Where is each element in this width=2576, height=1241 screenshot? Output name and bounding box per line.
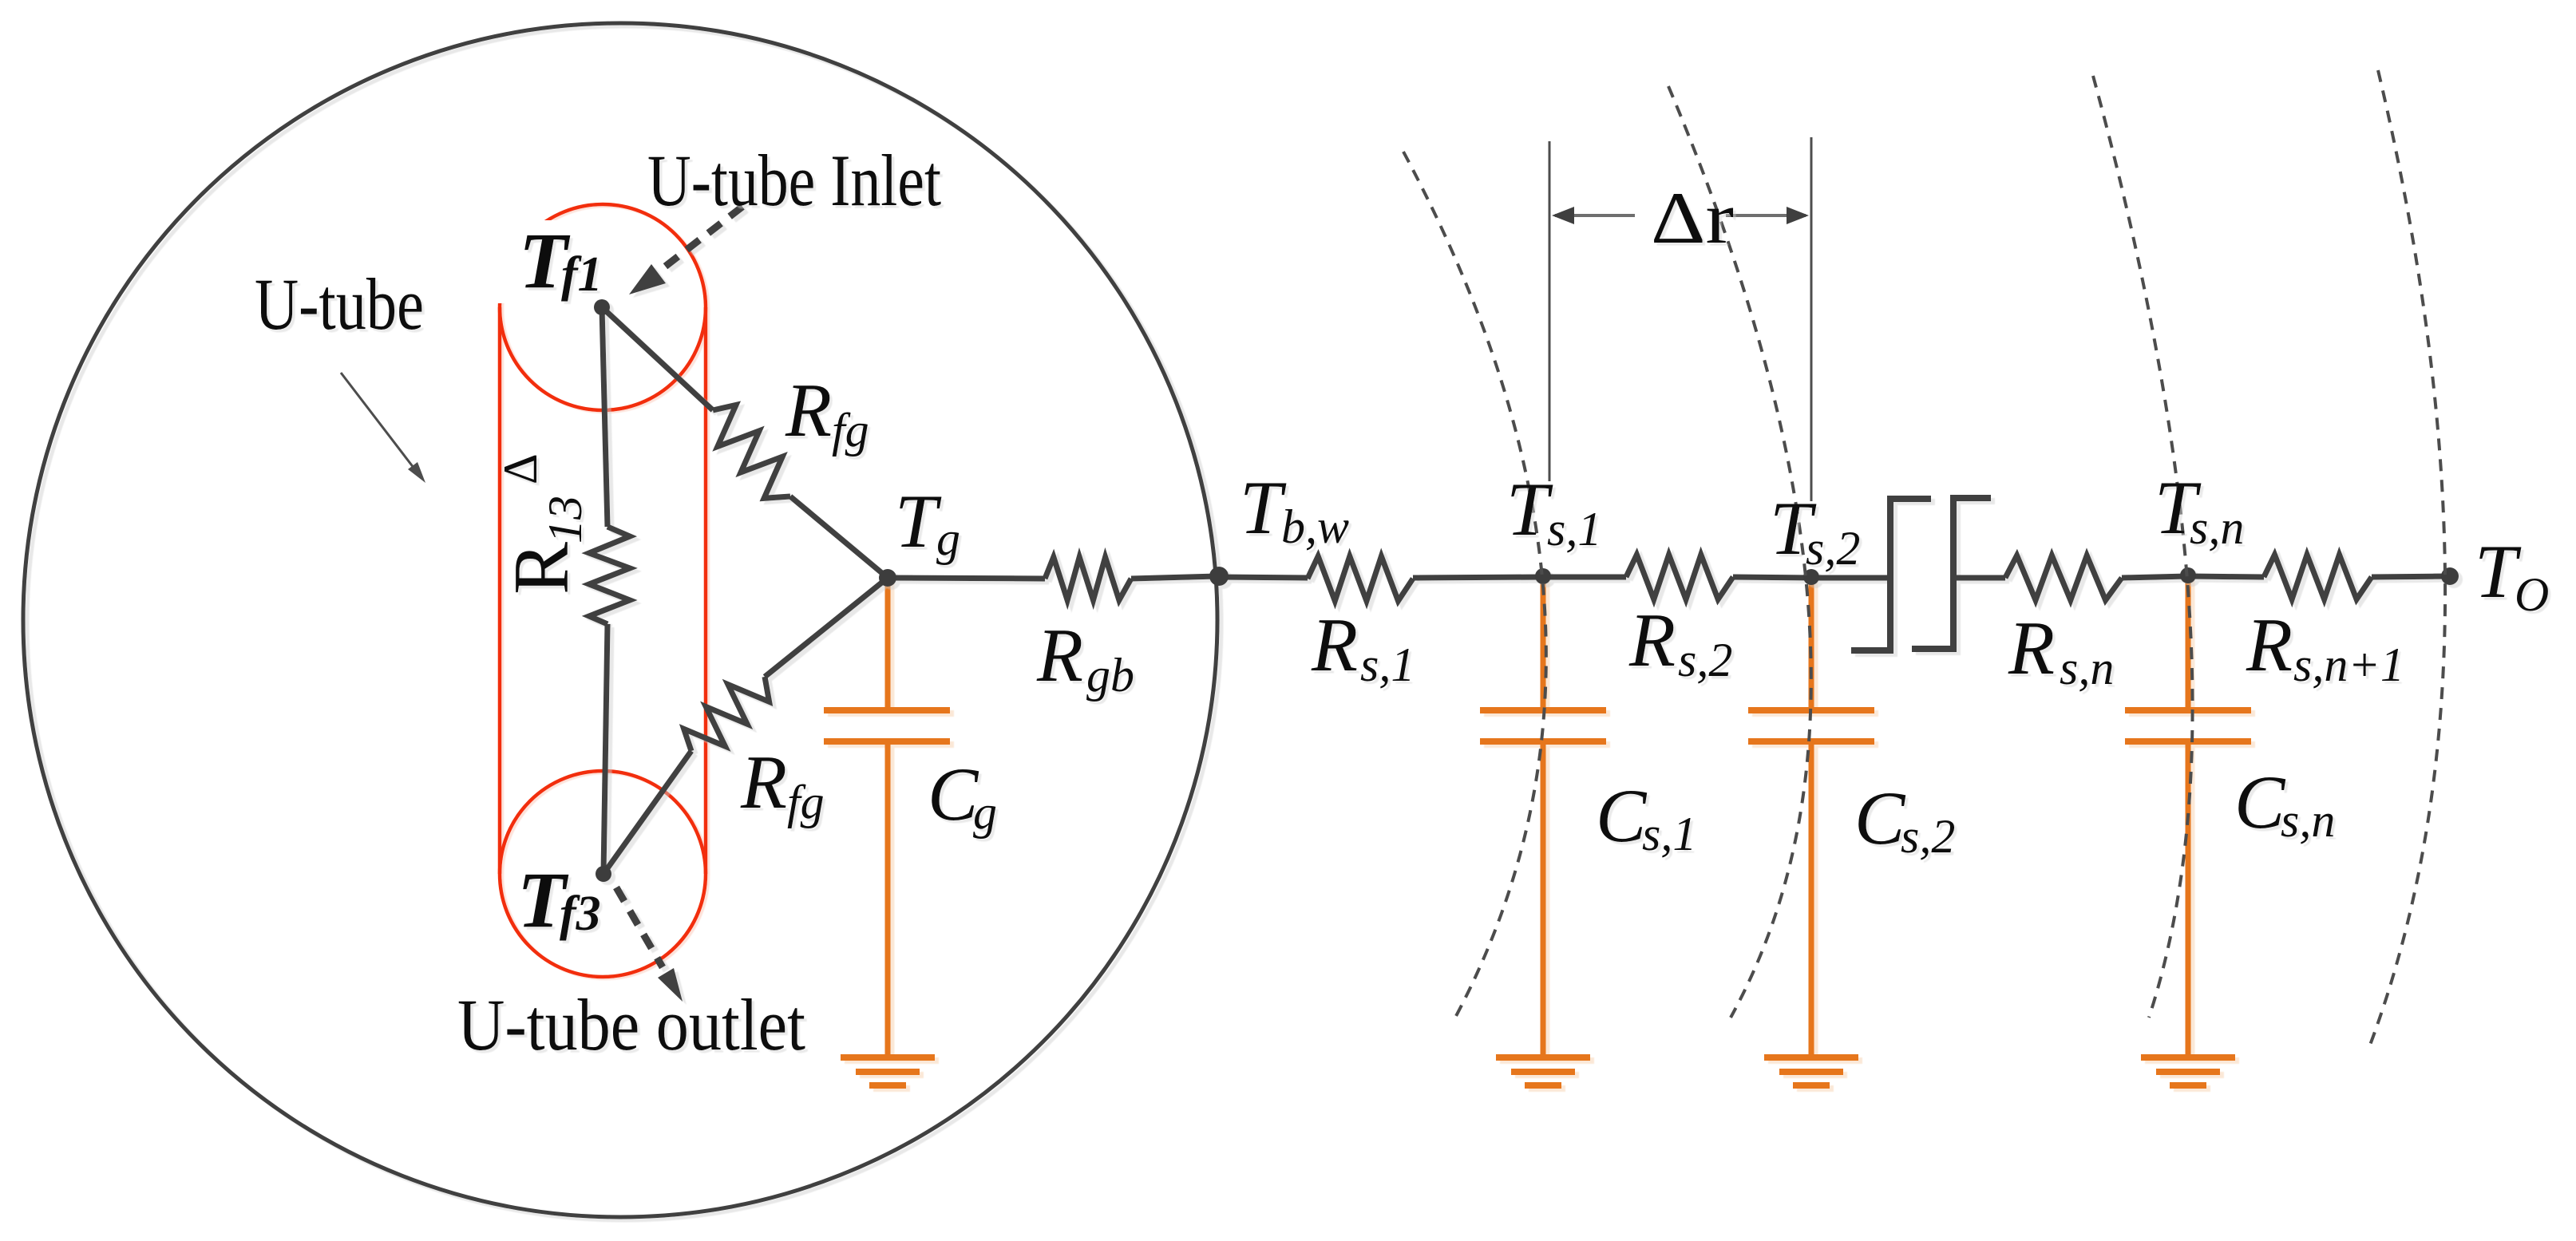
- label R13 (rotated): [494, 453, 592, 595]
- node To: [2441, 567, 2459, 585]
- label Rs,2: [1628, 598, 1732, 686]
- label Ts,2: [1770, 486, 1860, 575]
- wire Ts,2 to break symbol: [1811, 575, 1890, 581]
- svg-text:s,1: s,1: [1547, 503, 1601, 555]
- soil layer dashed arc 2: [1668, 86, 1811, 1018]
- svg-text:s,n: s,n: [2190, 501, 2244, 554]
- svg-text:gb: gb: [1086, 649, 1134, 702]
- svg-text:fg: fg: [787, 776, 825, 828]
- resistor Rs,n+1 zigzag: [2264, 555, 2372, 599]
- resistor Rfg (bottom) zigzag: [684, 677, 770, 751]
- node Tf3: [596, 866, 611, 882]
- wire Tf3 to Rfg(bottom): [603, 751, 691, 874]
- label U-tube: [255, 263, 424, 345]
- svg-text:R: R: [2246, 603, 2293, 687]
- label Tb,w: [1240, 465, 1349, 553]
- svg-text:13: 13: [539, 496, 592, 543]
- ground symbol for Cs,1: [1496, 1057, 1590, 1085]
- svg-text:R: R: [740, 740, 787, 824]
- U-tube outlet pipe circle: [500, 771, 706, 977]
- wire Rfg(top) to Tg: [790, 496, 888, 578]
- circuit break symbol right bracket: [1912, 498, 1991, 649]
- svg-text:s,2: s,2: [1901, 810, 1955, 863]
- svg-text:T: T: [1240, 465, 1287, 550]
- node Ts,1 junction: [1535, 568, 1551, 584]
- label Rs,n+1: [2246, 603, 2404, 691]
- label U-tube Inlet: [647, 140, 941, 221]
- resistor Rgb zigzag: [1045, 557, 1131, 600]
- label Rs,n: [2008, 606, 2114, 694]
- capacitor Cs,1: [1480, 576, 1606, 1055]
- circuit break symbol left bracket: [1851, 499, 1931, 650]
- soil layer dashed arc 3: [2093, 76, 2193, 1018]
- wire Tb,w to Rs,1: [1219, 577, 1308, 578]
- svg-text:C: C: [1854, 776, 1906, 860]
- ground symbol for Cs,2: [1764, 1057, 1858, 1085]
- pointer arrow U-tube label to pipe: [341, 373, 425, 483]
- dashed arrow U-tube Inlet to Tf1: [629, 207, 742, 294]
- label Cs,n: [2234, 760, 2335, 847]
- dashed arrow Tf3 to U-tube outlet: [616, 887, 683, 1002]
- svg-text:fg: fg: [832, 404, 869, 456]
- capacitor Cs,2: [1748, 576, 1874, 1055]
- wire Rs,1 to Ts,1: [1413, 577, 1543, 578]
- U-tube inlet pipe circle: [500, 204, 706, 410]
- svg-text:g: g: [973, 786, 997, 839]
- node Tf1: [594, 299, 610, 315]
- label Cs,1: [1596, 773, 1696, 860]
- label Tg: [895, 479, 960, 565]
- svg-text:s,1: s,1: [1642, 808, 1696, 860]
- node Ts,2 junction: [1803, 569, 1819, 585]
- label Rs,1: [1311, 603, 1415, 691]
- ground symbol for Cg: [841, 1057, 935, 1085]
- resistor R13 zigzag: [589, 527, 630, 624]
- label Rfg (bottom): [740, 740, 825, 828]
- soil layer dashed arc 4: [2369, 70, 2445, 1047]
- wire break to Rs,n: [1953, 575, 2005, 581]
- label Rgb: [1036, 613, 1134, 702]
- svg-text:f3: f3: [560, 887, 601, 941]
- U-tube pipe outline right wall: [704, 307, 708, 874]
- wire Rfg(bottom) to Tg: [765, 578, 888, 677]
- svg-text:s,n: s,n: [2281, 794, 2335, 847]
- svg-text:f1: f1: [561, 247, 603, 302]
- wire Ts,1 to Rs,2: [1543, 575, 1626, 580]
- borehole wall circle: [23, 23, 1217, 1217]
- capacitor Cg: [824, 578, 950, 1055]
- svg-text:Δr: Δr: [1651, 177, 1734, 259]
- svg-text:R: R: [1036, 613, 1083, 698]
- svg-text:b,w: b,w: [1281, 500, 1349, 553]
- svg-text:s,2: s,2: [1678, 634, 1732, 686]
- wire Tg to Rgb: [888, 578, 1045, 579]
- wire R13 to Tf3: [603, 624, 607, 874]
- label Ts,n: [2155, 465, 2244, 554]
- svg-text:R: R: [2008, 606, 2055, 690]
- svg-text:C: C: [1596, 773, 1648, 858]
- label Tf1: [519, 216, 603, 305]
- wire Rs,n to Ts,n: [2122, 576, 2188, 578]
- svg-text:R: R: [498, 542, 585, 595]
- svg-text:s,2: s,2: [1806, 522, 1860, 575]
- node Tb,w junction: [1209, 567, 1229, 586]
- svg-text:s,n: s,n: [2060, 642, 2114, 694]
- wire Rgb to Tb,w: [1131, 576, 1219, 579]
- resistor Rs,2 zigzag: [1626, 555, 1733, 599]
- resistor Rs,n zigzag: [2005, 555, 2122, 600]
- label Cs,2: [1854, 776, 1955, 863]
- svg-text:O: O: [2515, 568, 2549, 621]
- svg-text:U-tube outlet: U-tube outlet: [457, 984, 805, 1065]
- svg-text:C: C: [2234, 760, 2286, 844]
- dimension arrow left: [1552, 207, 1635, 224]
- wire Tf1 to R13: [602, 307, 607, 527]
- svg-text:s,1: s,1: [1360, 638, 1415, 691]
- svg-text:g: g: [936, 512, 960, 565]
- label Rfg (top): [785, 368, 869, 456]
- U-tube pipe outline left wall: [498, 307, 502, 874]
- svg-text:R: R: [785, 368, 832, 453]
- label Ts,1: [1506, 467, 1601, 555]
- node Tg: [879, 569, 896, 587]
- svg-text:R: R: [1311, 603, 1358, 687]
- wire Ts,n to Rs,n+1: [2188, 576, 2264, 577]
- svg-text:U-tube: U-tube: [255, 263, 424, 345]
- svg-text:U-tube Inlet: U-tube Inlet: [647, 140, 941, 221]
- svg-text:s,n+1: s,n+1: [2293, 638, 2404, 691]
- ground symbol for Cs,n: [2141, 1057, 2235, 1085]
- dimension extension line at Ts,1: [1549, 141, 1551, 481]
- svg-text:Δ: Δ: [494, 453, 547, 484]
- wire Rs,n+1 to To: [2372, 576, 2450, 577]
- dimension arrow right: [1726, 207, 1809, 224]
- label Tf3: [517, 856, 601, 944]
- resistor Rfg (top) zigzag: [713, 405, 790, 498]
- wire Rs,2 to Ts,2: [1733, 577, 1811, 578]
- label delta-r: [1651, 177, 1734, 259]
- node Ts,n junction: [2180, 567, 2196, 583]
- resistor Rs,1 zigzag: [1308, 556, 1413, 601]
- label To: [2475, 529, 2549, 621]
- dimension extension line at Ts,2: [1810, 137, 1813, 501]
- svg-text:C: C: [928, 752, 979, 836]
- label Cg: [928, 752, 997, 839]
- soil layer dashed arc 1: [1403, 152, 1546, 1018]
- svg-text:T: T: [895, 479, 942, 563]
- wire Tf1 to Rfg(top): [602, 307, 713, 410]
- label background for node Tf1: [473, 220, 616, 303]
- capacitor Cs,n: [2125, 576, 2251, 1055]
- label U-tube outlet: [457, 984, 805, 1065]
- svg-text:R: R: [1628, 598, 1676, 682]
